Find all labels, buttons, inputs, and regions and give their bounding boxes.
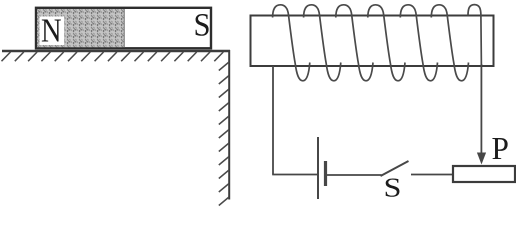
coil winding turn 3 [336,5,373,81]
table surface hatching [2,52,224,61]
battery long plate [317,137,319,199]
coil winding turn 4 [368,5,405,81]
coil winding turn 5 [400,5,437,81]
wire: switch to rheostat [411,174,453,176]
wire: battery to switch [327,174,382,176]
magnet N pole shading [37,9,124,47]
magnet bar outline [36,8,211,49]
wire: bottom left to battery [272,174,317,176]
switch S blade [381,161,409,176]
svg-text:P: P [492,131,509,166]
pole boundary line [123,9,125,47]
battery short plate [324,161,327,186]
wall hatching [219,62,229,206]
svg-text:S: S [384,173,402,203]
rheostat slider arrowhead [477,153,486,165]
rheostat P body [453,166,515,182]
wire: coil left lead down [272,66,274,175]
table surface line [2,50,230,52]
coil winding turn 6 [431,5,468,81]
coil core rectangle [251,16,494,67]
wire: coil right lead down to slider [480,64,482,154]
coil winding turn 7 (end turn) [468,5,481,66]
svg-text:N: N [41,13,62,50]
coil winding turn 2 [304,5,341,81]
table edge (wall) line [228,50,230,200]
coil winding turn 1 [273,5,310,81]
N label box [40,17,65,46]
svg-text:S: S [194,8,211,44]
